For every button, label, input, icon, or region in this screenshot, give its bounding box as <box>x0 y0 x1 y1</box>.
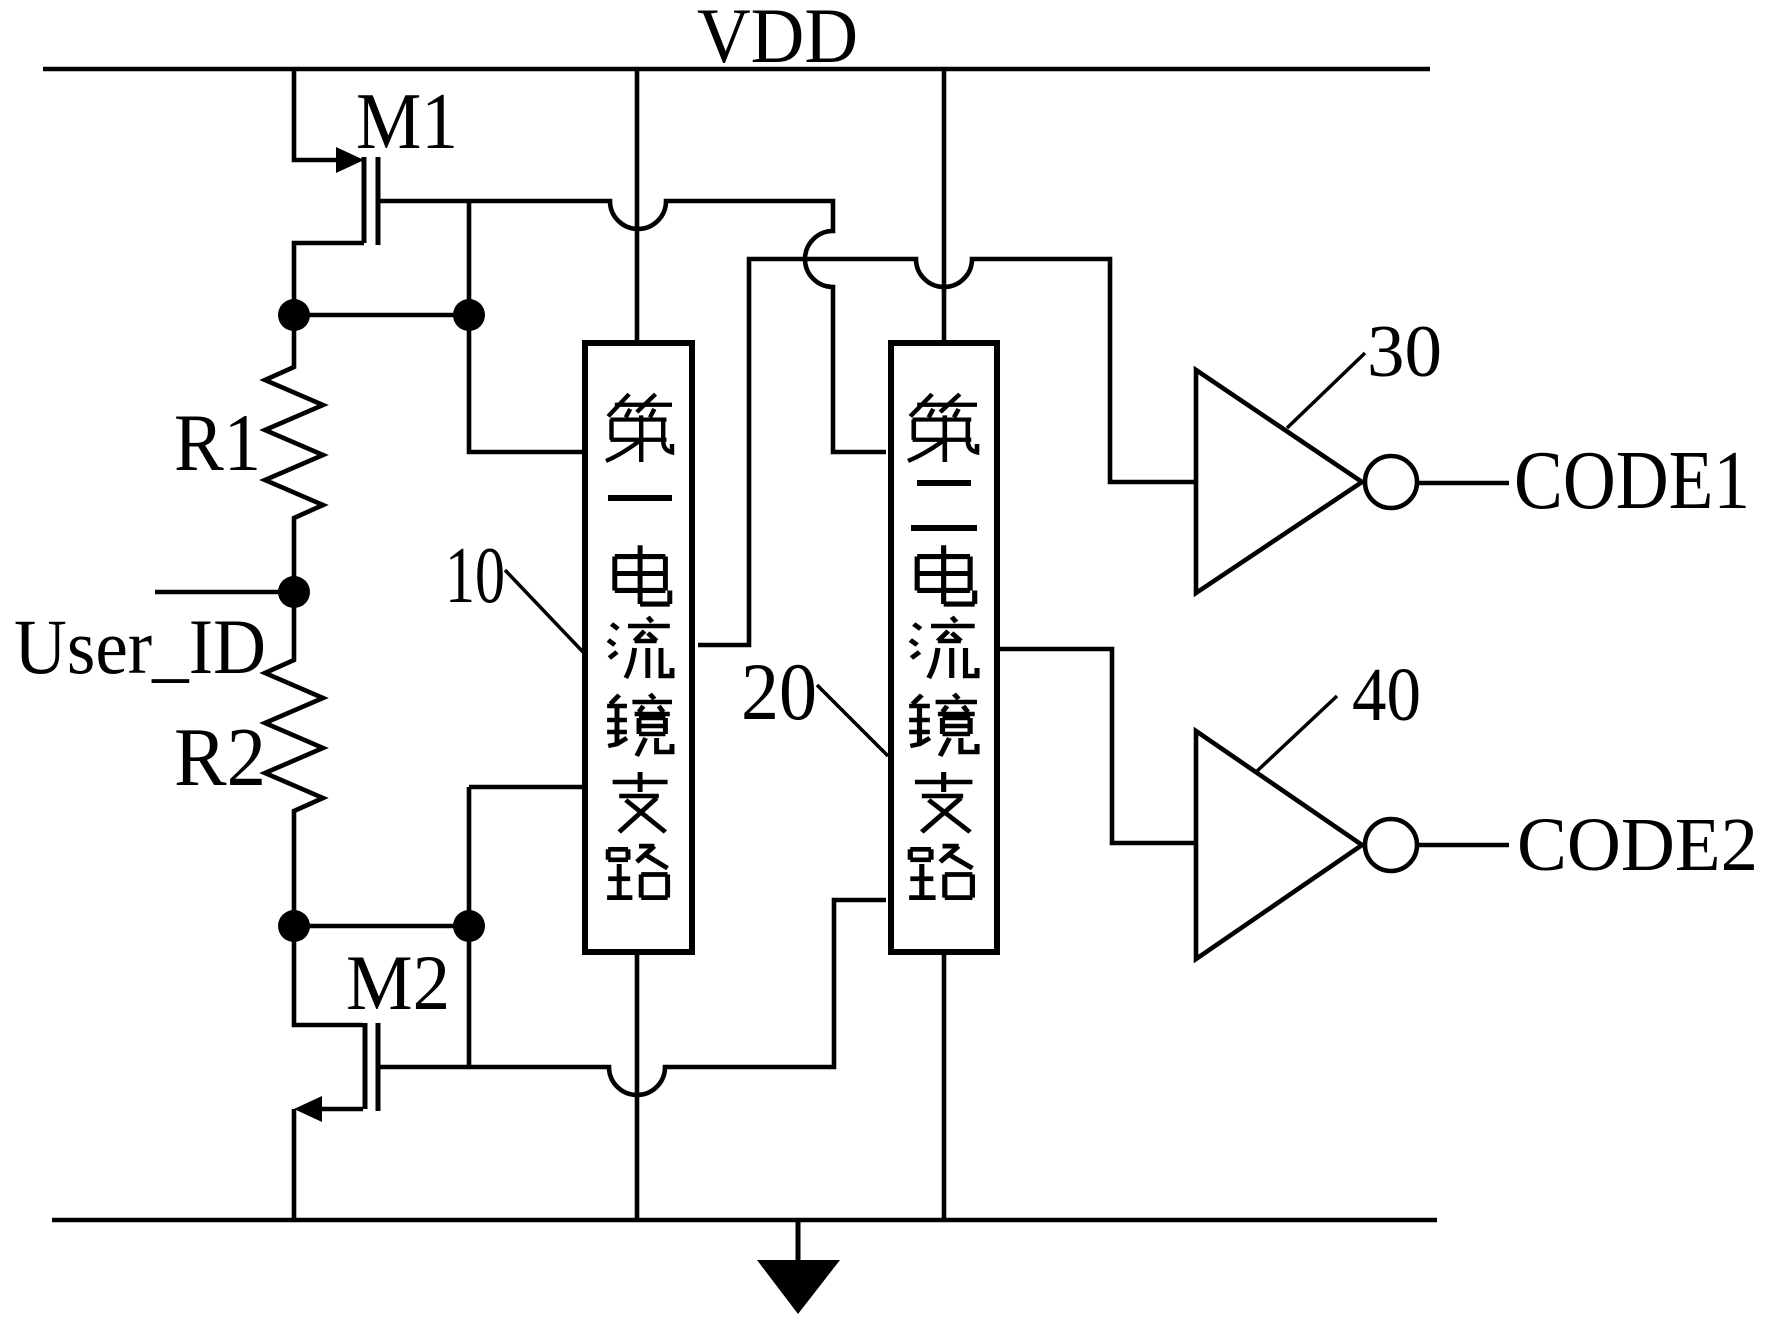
svg-text:40: 40 <box>1352 653 1421 737</box>
svg-text:10: 10 <box>445 532 505 620</box>
svg-text:CODE1: CODE1 <box>1514 434 1750 527</box>
svg-text:VDD: VDD <box>697 0 858 79</box>
svg-text:30: 30 <box>1367 311 1442 393</box>
svg-text:R1: R1 <box>174 397 261 488</box>
svg-text:R2: R2 <box>174 711 266 804</box>
svg-text:20: 20 <box>741 646 817 737</box>
svg-text:M2: M2 <box>346 939 450 1026</box>
svg-text:M1: M1 <box>356 78 458 166</box>
svg-text:User_ID: User_ID <box>14 603 266 690</box>
svg-text:CODE2: CODE2 <box>1517 803 1758 887</box>
